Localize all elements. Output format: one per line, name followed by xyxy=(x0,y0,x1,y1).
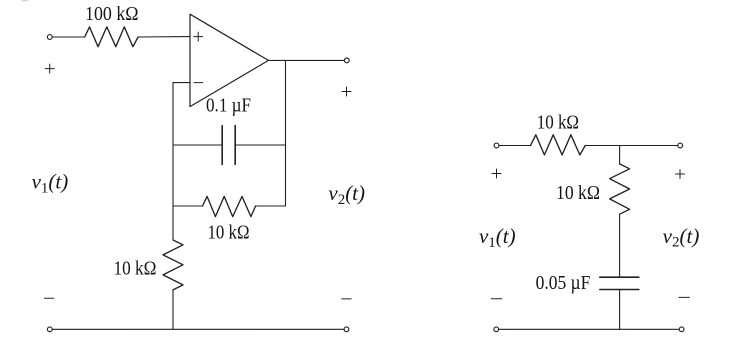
wire: capacitor C2 to bottom rail xyxy=(619,290,621,330)
op-amp U1 plus input marker xyxy=(194,32,203,41)
polarity minus (right circuit output) xyxy=(679,296,689,298)
wire: resistor R4 to right terminal xyxy=(585,145,677,147)
polarity minus (right circuit input) xyxy=(491,298,501,300)
node: right circuit bottom-right terminal xyxy=(679,327,684,332)
wire: resistor R3 to bottom rail xyxy=(172,290,174,329)
svg-text:v1(t): v1(t) xyxy=(479,224,516,251)
resistor R2 10 kOhm (horizontal feedback) xyxy=(203,196,256,216)
svg-text:10 kΩ: 10 kΩ xyxy=(556,183,600,204)
op-amp U1 minus input marker xyxy=(194,82,203,84)
stray cropped glyph fragment at top edge xyxy=(22,0,28,1)
resistor R4 10 kOhm (horizontal, right circuit) xyxy=(531,135,586,155)
node: right circuit input terminal (top-left) xyxy=(494,143,499,148)
polarity plus (right circuit output) xyxy=(676,170,685,179)
node: left circuit output terminal (top-right) xyxy=(344,58,349,63)
node: right circuit bottom-left terminal xyxy=(494,327,499,332)
polarity plus (left circuit output) xyxy=(342,87,351,96)
svg-text:v2(t): v2(t) xyxy=(663,224,700,251)
svg-text:10 kΩ: 10 kΩ xyxy=(114,259,157,280)
wire: op-amp inverting input going left xyxy=(173,82,190,84)
svg-text:100 kΩ: 100 kΩ xyxy=(85,4,139,25)
svg-text:10 kΩ: 10 kΩ xyxy=(208,222,250,243)
op-amp U1 triangle xyxy=(190,14,268,106)
wire: right circuit bottom rail xyxy=(499,328,679,330)
wire: left feedback rail down xyxy=(172,83,174,240)
wire: resistor R2 to right rail xyxy=(256,205,286,207)
wire: junction down to resistor R5 xyxy=(619,146,621,164)
svg-text:0.1 µF: 0.1 µF xyxy=(206,96,251,117)
svg-text:v2(t): v2(t) xyxy=(328,181,365,208)
polarity minus (left circuit output) xyxy=(342,298,351,300)
svg-text:10 kΩ: 10 kΩ xyxy=(537,113,579,134)
wire: input terminal to resistor R1 xyxy=(53,36,85,38)
svg-text:v1(t): v1(t) xyxy=(32,170,69,197)
wire: right feedback rail down xyxy=(285,60,287,206)
capacitor C1 0.1 uF plates xyxy=(222,126,235,165)
capacitor C2 0.05 uF plates xyxy=(600,277,639,289)
svg-text:0.05 µF: 0.05 µF xyxy=(536,273,591,294)
node: left circuit bottom-right terminal xyxy=(344,327,349,332)
polarity minus (left input) xyxy=(44,297,53,299)
wire: capacitor C1 to right rail xyxy=(235,144,285,146)
node: right circuit output terminal (top-right) xyxy=(678,143,683,148)
wire: left circuit bottom rail xyxy=(53,328,344,330)
resistor R3 10 kOhm (vertical, to ground rail) xyxy=(163,240,183,290)
wire: resistor R5 to capacitor C2 xyxy=(619,214,621,277)
resistor R5 10 kOhm (vertical, right circuit) xyxy=(610,164,630,214)
node: left circuit bottom-left terminal xyxy=(47,327,52,332)
wire: resistor R1 to op-amp noninverting input xyxy=(138,36,190,38)
polarity plus (right circuit input) xyxy=(492,169,501,178)
wire: input terminal to resistor R4 xyxy=(499,145,530,147)
resistor R1 100 kOhm (horizontal, top-left) xyxy=(85,27,138,47)
wire: left rail to capacitor C1 xyxy=(173,144,222,146)
node: left circuit input terminal (top-left) xyxy=(47,35,52,40)
wire: left rail to resistor R2 xyxy=(173,205,203,207)
polarity plus (left input) xyxy=(45,64,54,73)
wire: op-amp output to output terminal xyxy=(268,59,344,61)
